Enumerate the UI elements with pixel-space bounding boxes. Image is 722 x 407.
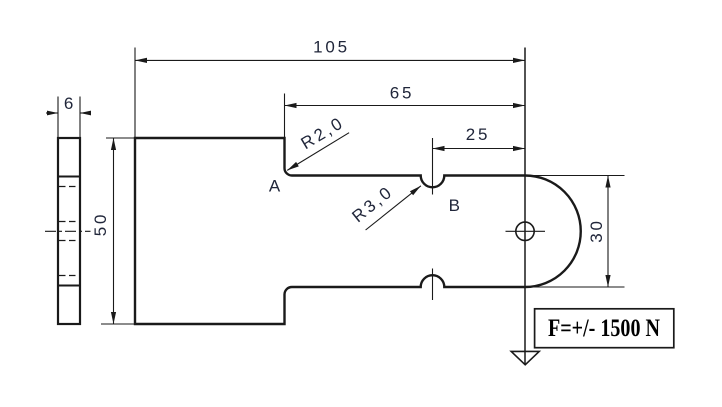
leader R2,0: [287, 133, 349, 171]
dim 105 arrow left: [135, 58, 147, 63]
side view hidden line notch top: [59, 186, 79, 188]
dim 50 extension top: [106, 137, 135, 139]
hole horizontal centerline: [506, 230, 546, 232]
hole: [516, 222, 534, 240]
dim 65 line: [285, 105, 526, 107]
svg-text:6: 6: [64, 94, 76, 113]
notch centerline bottom: [432, 269, 434, 301]
dim 50 line: [113, 138, 115, 324]
side view arm top edge: [58, 176, 80, 178]
dim 30 extension top: [525, 175, 625, 177]
svg-text:R2,0: R2,0: [298, 113, 348, 154]
dim 6 line left tail: [46, 112, 58, 114]
dim 6 arrow right: [80, 111, 91, 116]
force label box: [535, 309, 674, 348]
svg-text:105: 105: [313, 38, 350, 57]
leader R3,0: [366, 186, 421, 230]
dim 65 arrow left: [285, 103, 297, 108]
dim 6 arrow left: [47, 111, 58, 116]
svg-text:30: 30: [587, 218, 606, 243]
dim 25 arrow left: [433, 146, 445, 151]
dim 105 line: [135, 59, 525, 61]
dim 65 extension left: [284, 94, 286, 140]
dim 6 line right tail: [80, 112, 90, 114]
dim 50 arrow top: [111, 138, 116, 150]
svg-text:R3,0: R3,0: [348, 182, 397, 226]
svg-text:65: 65: [390, 84, 415, 103]
dim 105 extension left: [134, 48, 136, 139]
svg-text:25: 25: [466, 125, 491, 144]
dim 105 arrow right: [513, 58, 525, 63]
svg-text:F=+/- 1500 N: F=+/- 1500 N: [548, 315, 660, 342]
side view hidden line hole bottom: [59, 240, 79, 242]
dim 30 arrow top: [605, 176, 610, 188]
svg-text:A: A: [269, 177, 281, 196]
dim 30 line: [607, 176, 609, 288]
notch centerline top: [432, 138, 434, 195]
svg-text:B: B: [449, 196, 460, 215]
svg-text:50: 50: [91, 212, 110, 237]
side view hidden line notch bottom: [59, 275, 79, 277]
dim 50 extension bottom: [101, 323, 135, 325]
side view hidden line hole top: [59, 221, 79, 223]
side view centerline: [45, 230, 91, 232]
side view arm bottom edge: [58, 285, 80, 287]
dim 25 arrow right: [513, 146, 525, 151]
force arrow head: [511, 351, 539, 364]
part outline main view: [135, 138, 581, 324]
dim 6 extension line left: [57, 97, 59, 139]
side view outline: [58, 138, 80, 324]
dim 50 arrow bottom: [111, 312, 116, 324]
dim 6 extension line right: [79, 97, 81, 139]
dim 25 line: [433, 148, 526, 150]
force line / right extension: [524, 48, 526, 365]
dim 30 arrow bottom: [605, 275, 610, 287]
dim 30 extension bottom: [525, 286, 625, 288]
dim 65 arrow right: [513, 103, 525, 108]
